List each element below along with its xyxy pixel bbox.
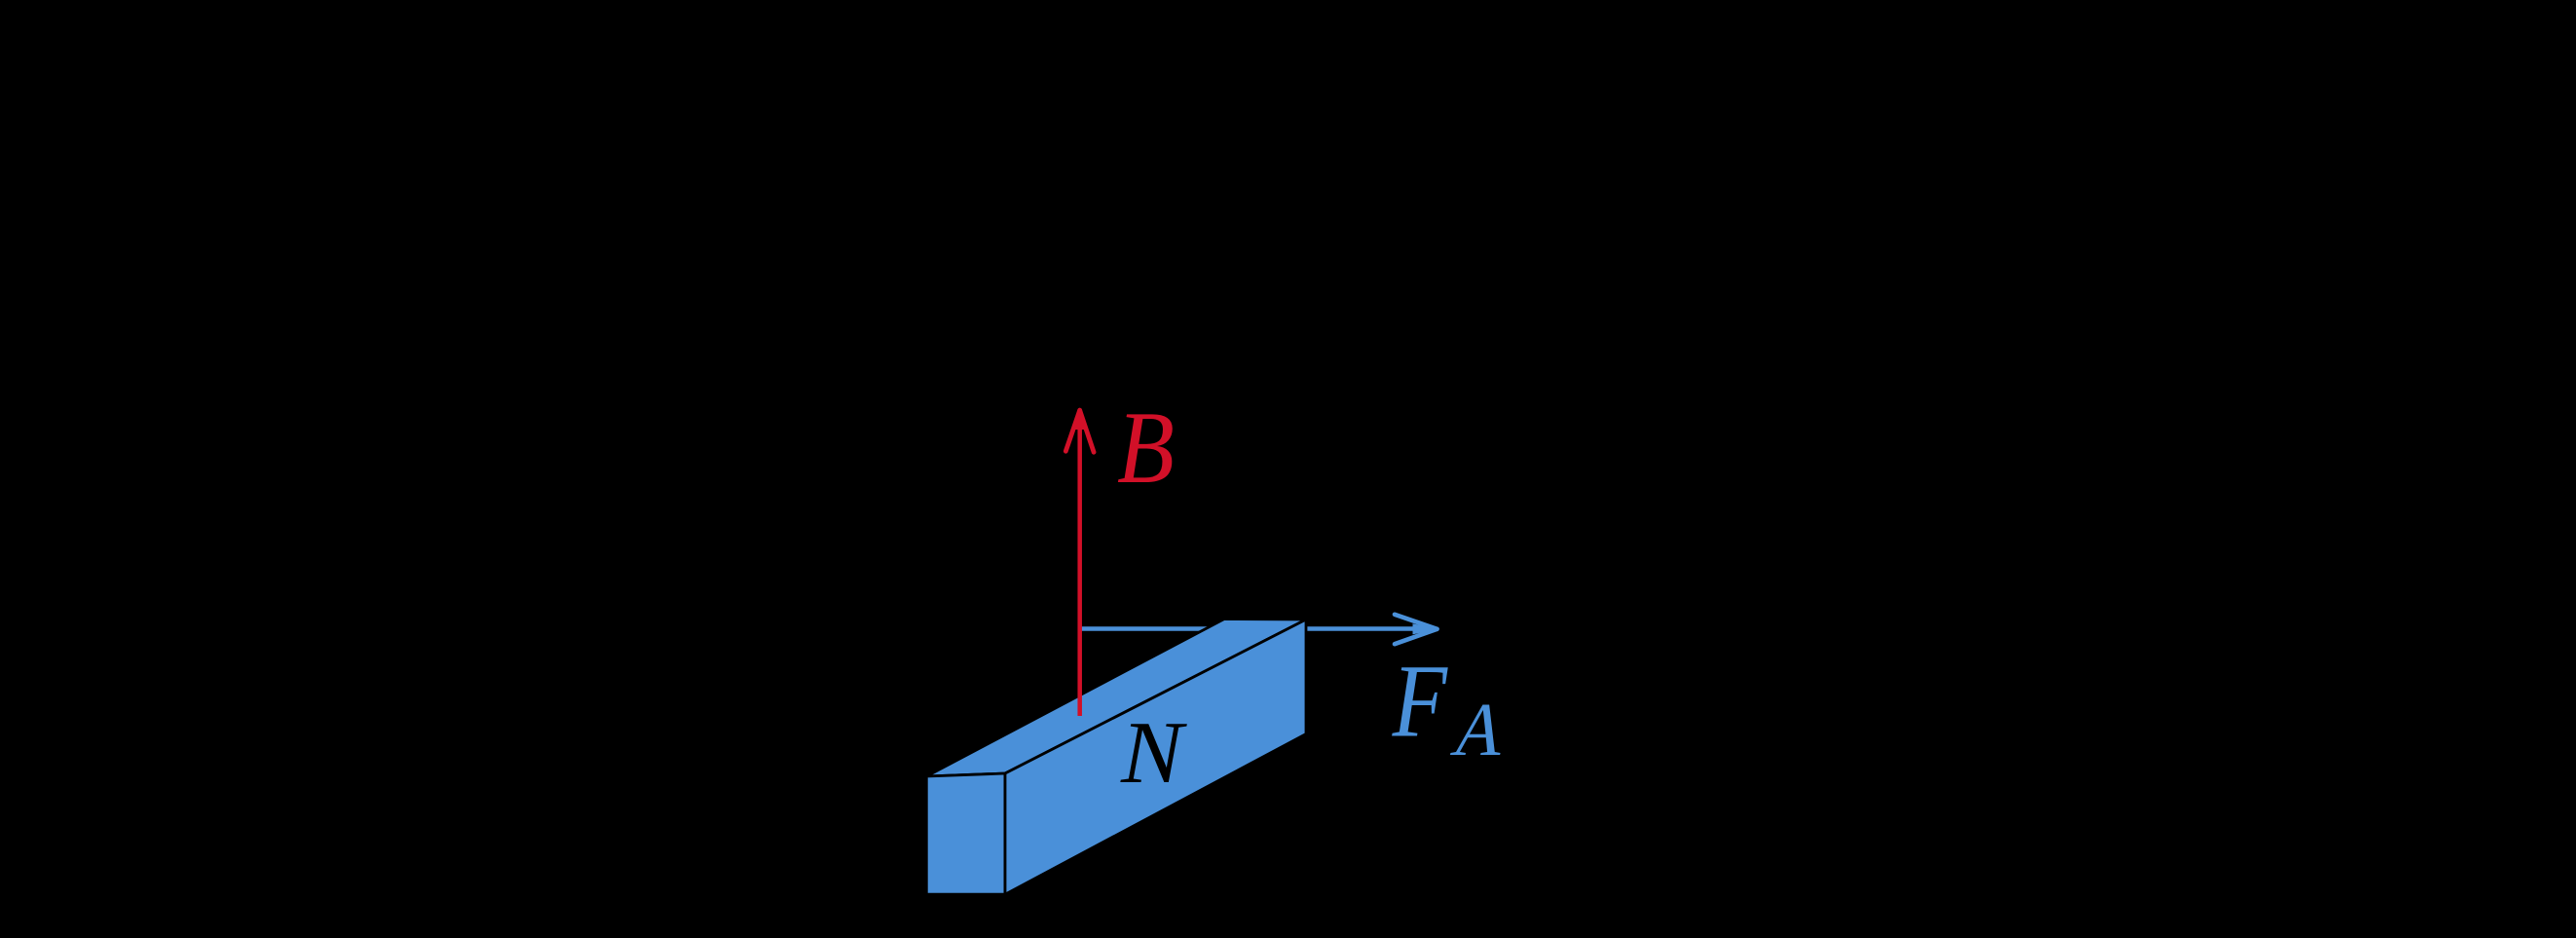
field vector B: red arrow shaft [1077,411,1082,716]
force vector F_A: blue arrow shaft [1081,626,1424,631]
field vector B: red arrowhead [1065,409,1094,452]
magnet bar N: front face [1005,619,1306,894]
force vector F_A: blue arrowhead [1395,615,1437,644]
svg-text:N: N [1120,704,1187,803]
svg-text:A: A [1445,688,1515,772]
svg-text:B: B [1117,391,1175,505]
magnet bar N: left end face [926,773,1005,894]
magnet bar N: top face [926,619,1306,777]
